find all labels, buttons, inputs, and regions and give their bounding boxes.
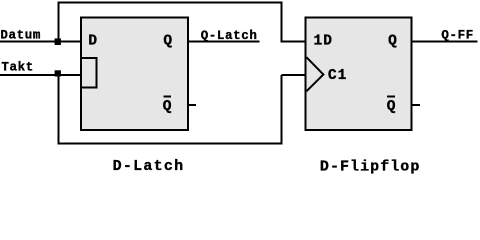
svg-text:D: D	[88, 34, 97, 50]
svg-text:Q: Q	[387, 99, 396, 115]
wire Q-FF output	[412, 40, 478, 42]
D-flipflop U2 body	[305, 18, 411, 130]
wire Datum input	[0, 40, 82, 42]
wire C1 lead	[281, 74, 306, 76]
wire top rail drop	[280, 3, 282, 43]
wire Takt dropper	[57, 75, 59, 145]
D-latch level-clock notch	[82, 58, 96, 88]
D-latch U1 body	[81, 18, 188, 130]
svg-text:D-Latch: D-Latch	[113, 158, 185, 175]
pin label Q-bar (ff)	[387, 97, 396, 115]
svg-text:Q-FF: Q-FF	[441, 29, 474, 43]
svg-text:Q-Latch: Q-Latch	[201, 29, 258, 43]
wire C1 riser	[280, 75, 282, 144]
wire top rail	[57, 2, 282, 4]
wire Q-bar stub (latch)	[188, 104, 196, 106]
svg-text:Q: Q	[163, 99, 172, 115]
svg-text:Takt: Takt	[1, 61, 34, 75]
wire Takt input	[0, 74, 82, 76]
svg-text:C1: C1	[328, 68, 347, 84]
wire Q-bar stub (ff)	[412, 104, 420, 106]
svg-text:Q: Q	[388, 33, 397, 49]
junction dot Takt node	[55, 70, 61, 76]
junction dot Datum node	[55, 38, 61, 45]
wire 1D lead	[281, 40, 306, 42]
svg-text:Q: Q	[163, 33, 172, 49]
svg-text:1D: 1D	[314, 34, 333, 50]
svg-text:D-Flipflop: D-Flipflop	[320, 158, 421, 175]
wire Q-Latch output	[188, 40, 259, 42]
wire Datum riser	[57, 3, 59, 42]
clock triangle (edge trigger)	[306, 57, 323, 91]
wire bottom rail	[57, 142, 282, 144]
pin label Q-bar (latch)	[163, 97, 172, 115]
